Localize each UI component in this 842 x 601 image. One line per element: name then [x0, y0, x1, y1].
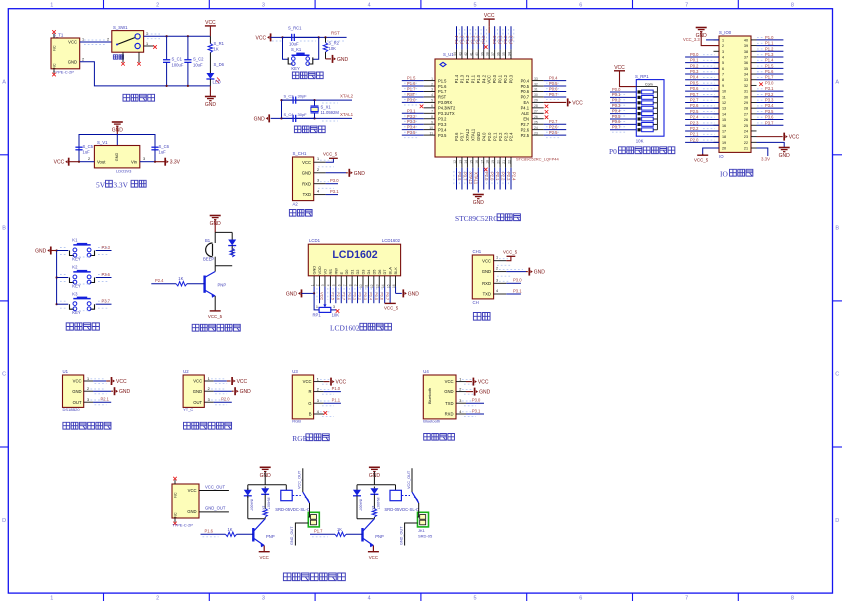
svg-text:YT_C: YT_C [183, 407, 193, 412]
svg-text:GND: GND [187, 509, 196, 514]
svg-text:10K: 10K [636, 139, 644, 144]
svg-text:VCC: VCC [73, 379, 82, 384]
svg-text:11: 11 [722, 95, 726, 99]
svg-text:7: 7 [722, 73, 724, 77]
module U4 Bluetooth [423, 375, 456, 419]
svg-text:GND: GND [779, 153, 791, 159]
svg-text:P4.2: P4.2 [481, 74, 486, 83]
svg-text:1: 1 [722, 38, 724, 42]
svg-text:B: B [835, 226, 839, 232]
svg-text:S_C6: S_C6 [159, 144, 170, 149]
svg-text:P1.1: P1.1 [470, 74, 475, 83]
svg-text:P1.1: P1.1 [332, 398, 341, 403]
caption module U1 [63, 422, 70, 429]
relay coil SRD-05VDC-SL-C [395, 485, 397, 491]
svg-text:P3.4: P3.4 [765, 103, 774, 108]
svg-text:VCC: VCC [256, 35, 267, 41]
svg-text:P3.4: P3.4 [438, 127, 447, 132]
svg-text:P0.7: P0.7 [521, 95, 530, 100]
svg-text:U4: U4 [423, 369, 429, 374]
serial pin2 to GND [499, 269, 523, 271]
svg-text:P0.5: P0.5 [549, 81, 558, 86]
svg-text:NC: NC [53, 63, 57, 69]
LCD data wires [313, 287, 315, 294]
svg-text:P2.7: P2.7 [549, 119, 558, 124]
wire crystal XTAL2 rail [282, 99, 353, 101]
svg-text:P0.5: P0.5 [521, 84, 530, 89]
svg-text:OUT: OUT [73, 400, 82, 405]
svg-text:Vin: Vin [131, 160, 138, 165]
svg-text:1K: 1K [228, 527, 233, 532]
svg-text:7: 7 [685, 596, 688, 601]
svg-text:3: 3 [333, 305, 335, 309]
svg-text:VCC_3.3: VCC_3.3 [683, 37, 700, 42]
svg-text:GND_OUT: GND_OUT [290, 526, 294, 545]
svg-text:P1.1: P1.1 [470, 35, 475, 44]
caption download port [289, 210, 296, 217]
push button K1 KEY [57, 250, 69, 252]
svg-text:VCC_OUT: VCC_OUT [298, 470, 302, 489]
svg-text:STC89C52RC_LQFP44: STC89C52RC_LQFP44 [516, 157, 559, 162]
module U1 DS18B20 [63, 375, 84, 407]
svg-text:VCC: VCC [188, 488, 197, 493]
svg-text:P3.0: P3.0 [407, 97, 416, 102]
svg-text:OUT: OUT [193, 400, 202, 405]
svg-text:P1.7: P1.7 [314, 528, 323, 533]
svg-text:P0.6: P0.6 [549, 87, 558, 92]
svg-text:GND: GND [119, 389, 131, 395]
svg-text:1K: 1K [232, 247, 236, 252]
svg-text:IO: IO [719, 154, 724, 159]
pull-up resistor element P0.1 [610, 96, 636, 98]
svg-text:RP1: RP1 [313, 313, 322, 318]
svg-text:P0.6: P0.6 [690, 86, 699, 91]
svg-text:XTAL2: XTAL2 [340, 94, 354, 99]
module U3 RGB [292, 375, 313, 419]
svg-text:1uF: 1uF [159, 150, 167, 155]
svg-text:IN4007: IN4007 [267, 498, 271, 510]
ground crystal circuit [268, 114, 270, 122]
svg-text:NC: NC [174, 492, 178, 498]
svg-text:Bluetooth: Bluetooth [423, 419, 440, 424]
svg-text:RGB: RGB [292, 419, 301, 424]
capacitor S_C2 10uF [187, 36, 189, 60]
svg-text:NC: NC [53, 45, 57, 51]
svg-text:P1.2: P1.2 [465, 35, 470, 44]
caption crystal circuit [294, 126, 301, 133]
svg-text:2: 2 [88, 157, 90, 161]
svg-text:P1.2: P1.2 [465, 74, 470, 83]
svg-text:25: 25 [744, 124, 748, 128]
svg-text:TYPE-C-2P: TYPE-C-2P [172, 523, 193, 528]
svg-text:S_R1: S_R1 [214, 41, 225, 46]
svg-text:P0: P0 [609, 147, 617, 156]
ground reset circuit [326, 58, 332, 60]
svg-text:P3.7: P3.7 [765, 120, 774, 125]
svg-text:P1.6: P1.6 [765, 69, 774, 74]
svg-text:3: 3 [317, 179, 319, 183]
svg-text:S_T1: S_T1 [53, 33, 64, 38]
svg-text:NC: NC [174, 512, 178, 518]
svg-text:P2.4: P2.4 [690, 115, 699, 120]
svg-text:P1.5: P1.5 [407, 76, 416, 81]
pull-up resistor element P0.0 [610, 91, 636, 93]
svg-text:31: 31 [744, 90, 748, 94]
wire crystal XTAL1 rail [271, 117, 352, 119]
svg-text:5V: 5V [96, 181, 106, 190]
svg-text:D0: D0 [344, 269, 349, 275]
svg-text:GND: GND [35, 249, 47, 255]
svg-text:VCC: VCC [484, 13, 495, 19]
svg-text:VCC: VCC [193, 379, 202, 384]
svg-text:P2.0: P2.0 [690, 137, 699, 142]
caption button circuit [66, 323, 73, 330]
svg-text:P4.0: P4.0 [481, 132, 486, 141]
relay snubber loop wires [357, 484, 396, 486]
svg-text:S_C2: S_C2 [193, 57, 204, 62]
svg-text:1: 1 [317, 157, 319, 161]
svg-text:P1.4: P1.4 [765, 58, 774, 63]
svg-text:4: 4 [317, 410, 319, 414]
svg-text:P2.0: P2.0 [487, 132, 492, 141]
svg-text:C: C [835, 372, 839, 378]
svg-text:XTAL2: XTAL2 [465, 128, 470, 141]
power port 3.3V out of LDO [164, 158, 166, 166]
svg-text:1K: 1K [262, 506, 266, 511]
buzzer B1 BEEP [206, 243, 213, 257]
power port VCC IO pin23 [757, 136, 783, 138]
ground button circuit [50, 247, 52, 255]
svg-text:D7: D7 [382, 270, 387, 275]
svg-text:30pF: 30pF [298, 94, 308, 99]
svg-text:GND: GND [286, 291, 298, 297]
relay coil SRD-05VDC-SL-C [285, 485, 287, 491]
svg-text:P1.5: P1.5 [438, 78, 447, 83]
svg-text:P3.2: P3.2 [765, 92, 774, 97]
button trunk wire [56, 251, 58, 305]
svg-text:JK1: JK1 [418, 528, 426, 533]
svg-text:P0.3: P0.3 [509, 74, 514, 83]
svg-text:P0.7: P0.7 [385, 292, 390, 300]
svg-text:P1.7: P1.7 [765, 75, 774, 80]
diode D2 IN4007 [370, 488, 378, 494]
module U4 pin4 net P3.1 [466, 413, 484, 415]
ground relay [260, 466, 271, 468]
svg-text:2: 2 [317, 388, 319, 392]
svg-text:1uF: 1uF [83, 150, 91, 155]
svg-text:D4: D4 [366, 269, 371, 275]
connector CH1 serial port [472, 255, 493, 299]
net 3.3V IO pin21 [757, 148, 768, 156]
svg-text:19: 19 [722, 141, 726, 145]
power port VCC power circuit [205, 25, 216, 27]
svg-text:P1.0: P1.0 [332, 386, 341, 391]
svg-text:BLA: BLA [388, 267, 393, 275]
svg-text:P0.4: P0.4 [521, 78, 530, 83]
svg-text:S_C4: S_C4 [284, 112, 295, 117]
svg-text:1: 1 [50, 596, 53, 601]
svg-text:P1.6: P1.6 [438, 84, 447, 89]
svg-text:13: 13 [722, 107, 726, 111]
svg-text:R: R [308, 389, 311, 394]
module U4 pin2 GND [466, 391, 473, 393]
svg-text:10K: 10K [332, 313, 340, 318]
svg-text:P0.0: P0.0 [492, 74, 497, 83]
svg-text:P2.5: P2.5 [521, 133, 530, 138]
push button K3 KEY [57, 303, 69, 305]
svg-text:1: 1 [316, 305, 318, 309]
svg-text:ALE: ALE [521, 111, 529, 116]
svg-text:A: A [835, 80, 839, 86]
svg-text:GND_OUT: GND_OUT [399, 526, 403, 545]
wire crystal left leg [281, 100, 283, 118]
svg-text:P3.6: P3.6 [454, 132, 459, 141]
svg-text:G: G [308, 401, 311, 406]
serial pin1 to VCC_5 [499, 258, 508, 260]
capacitor S_C6 1uF [154, 140, 156, 147]
svg-text:P3.3: P3.3 [438, 122, 447, 127]
svg-text:100uF: 100uF [172, 63, 184, 68]
svg-text:P3.7: P3.7 [102, 299, 111, 304]
svg-text:P1.0: P1.0 [476, 35, 481, 44]
caption Bluetooth module [424, 434, 431, 441]
svg-text:P0.0: P0.0 [612, 87, 621, 92]
svg-text:VCC: VCC [369, 555, 378, 560]
svg-text:28: 28 [744, 107, 748, 111]
svg-text:39: 39 [744, 44, 748, 48]
svg-text:P2.3: P2.3 [503, 132, 508, 141]
power port VCC into LDO [68, 158, 70, 166]
svg-text:P4.3INT2: P4.3INT2 [438, 106, 456, 111]
svg-text:VCC: VCC [303, 379, 312, 384]
IO right pins P1.0-P1.7 [757, 39, 784, 41]
svg-text:VCC_OUT: VCC_OUT [205, 484, 225, 489]
svg-text:40: 40 [744, 38, 748, 42]
svg-text:8: 8 [722, 78, 724, 82]
svg-text:P0.0: P0.0 [690, 52, 699, 57]
capacitor S_C5 1uF [78, 140, 80, 147]
svg-text:VCC: VCC [482, 258, 491, 263]
svg-text:2: 2 [496, 267, 498, 271]
svg-text:P3.3: P3.3 [407, 119, 416, 124]
svg-text:U1: U1 [63, 369, 69, 374]
module U2 pin3 net P2.0 [214, 401, 232, 403]
svg-text:P3.5: P3.5 [438, 133, 447, 138]
svg-text:S_D6: S_D6 [214, 62, 225, 67]
wire LDO top rail [79, 135, 155, 162]
ground 5V-3.3V circuit [112, 121, 123, 123]
ground relay [369, 466, 380, 468]
ground power circuit [209, 86, 211, 97]
svg-text:P1.3: P1.3 [459, 74, 464, 83]
wire net GND_OUT [199, 511, 229, 513]
svg-text:P2.6: P2.6 [521, 127, 530, 132]
svg-text:14: 14 [722, 112, 726, 116]
svg-text:VCC: VCC [336, 380, 347, 386]
svg-text:P0.4: P0.4 [549, 76, 558, 81]
module U2 YT_C [183, 375, 204, 407]
pull-up resistor element P0.2 [610, 102, 636, 104]
svg-text:TXD: TXD [483, 292, 491, 297]
svg-text:VCC: VCC [572, 100, 583, 106]
caption module U2 [184, 422, 191, 429]
svg-text:KEY: KEY [291, 66, 300, 71]
wire reset top rail to RST [271, 36, 347, 38]
svg-text:6: 6 [722, 67, 724, 71]
svg-text:GND: GND [240, 389, 252, 395]
svg-text:IN4007: IN4007 [376, 498, 380, 510]
svg-text:32: 32 [744, 84, 748, 88]
resistor relay base 1K [310, 533, 335, 535]
svg-text:P3.4: P3.4 [407, 125, 416, 130]
svg-text:K3: K3 [72, 291, 78, 296]
svg-text:1: 1 [82, 38, 84, 42]
svg-text:VCC: VCC [302, 160, 311, 165]
svg-text:2: 2 [156, 2, 159, 8]
svg-text:GND: GND [473, 200, 485, 206]
download port pin1 to VCC_5 [320, 159, 332, 161]
pull-up resistor element P0.6 [610, 123, 636, 125]
svg-text:P2.7: P2.7 [521, 122, 530, 127]
svg-text:5: 5 [473, 596, 476, 601]
svg-text:GND: GND [408, 291, 420, 297]
ground LCD left [301, 289, 303, 297]
capacitor S_C4 30pF [282, 117, 294, 119]
svg-text:Vout: Vout [97, 160, 106, 165]
svg-text:P0.7: P0.7 [612, 125, 621, 130]
svg-text:2: 2 [87, 387, 89, 391]
svg-text:E: E [339, 272, 344, 275]
net VCC_5 IO pin20 [703, 148, 719, 155]
svg-text:P3.1UTX: P3.1UTX [438, 111, 455, 116]
svg-text:TXD: TXD [303, 192, 311, 197]
serial pin3 net P3.0 [499, 280, 510, 282]
svg-text:S_SW1: S_SW1 [113, 25, 128, 30]
svg-text:P0.3: P0.3 [612, 103, 621, 108]
svg-text:S_K1: S_K1 [291, 47, 302, 52]
svg-text:1: 1 [208, 377, 210, 381]
svg-text:22: 22 [744, 141, 748, 145]
MCU S_U1 STC89C52RC_LQFP44 [435, 59, 532, 157]
svg-text:P0.0: P0.0 [492, 35, 497, 44]
svg-text:P0.7: P0.7 [690, 92, 699, 97]
svg-text:DS18B20: DS18B20 [63, 407, 81, 412]
capacitor S_RC1 10uF [283, 36, 292, 38]
svg-text:9: 9 [722, 84, 724, 88]
switch S_SW1 [112, 31, 144, 53]
svg-text:GND: GND [68, 60, 77, 65]
svg-text:3: 3 [262, 2, 265, 8]
svg-text:4: 4 [368, 596, 371, 601]
wire relay emitter to VCC [372, 546, 374, 552]
svg-text:GND: GND [312, 266, 317, 275]
svg-text:3: 3 [496, 278, 498, 282]
resistor alarm base 1K [151, 283, 176, 285]
svg-text:10: 10 [722, 90, 726, 94]
svg-text:D3: D3 [360, 270, 365, 275]
svg-text:SRD-05VDC-SL-C: SRD-05VDC-SL-C [275, 507, 310, 512]
svg-text:4: 4 [368, 2, 371, 8]
svg-text:P2.4: P2.4 [511, 172, 516, 181]
svg-text:P0.7: P0.7 [549, 92, 558, 97]
svg-text:P2.6: P2.6 [690, 103, 699, 108]
LED S_D6 [206, 73, 214, 79]
svg-text:LCD1602: LCD1602 [382, 238, 401, 243]
svg-text:38: 38 [744, 50, 748, 54]
svg-text:VCC: VCC [237, 379, 248, 385]
LED alarm branch [228, 240, 236, 246]
svg-text:P3.1: P3.1 [472, 408, 481, 413]
svg-text:RGB: RGB [292, 434, 307, 443]
svg-text:Com: Com [645, 83, 653, 87]
svg-text:3: 3 [722, 50, 724, 54]
svg-text:18: 18 [722, 135, 726, 139]
push button K2 KEY [57, 277, 69, 279]
svg-text:IO: IO [720, 170, 728, 179]
transistor PNP relay driver [252, 528, 254, 542]
svg-text:12: 12 [722, 101, 726, 105]
svg-text:P2.7: P2.7 [690, 97, 699, 102]
svg-text:3: 3 [317, 399, 319, 403]
svg-text:4: 4 [459, 410, 461, 414]
svg-text:P0.3: P0.3 [690, 69, 699, 74]
svg-text:P0.5: P0.5 [612, 114, 621, 119]
svg-text:P0.2: P0.2 [503, 35, 508, 44]
IO right pin 32 no-connect P3.0 [759, 82, 763, 86]
svg-text:S_RC1: S_RC1 [288, 26, 302, 31]
svg-text:A: A [2, 80, 6, 86]
svg-text:P3.2: P3.2 [407, 114, 416, 119]
svg-text:7: 7 [685, 2, 688, 8]
svg-text:S_IO0: S_IO0 [719, 30, 732, 35]
terminal block connector [308, 512, 319, 527]
module U1 pin2 GND [93, 390, 111, 392]
svg-text:2: 2 [459, 388, 461, 392]
power port VCC MCU top [484, 18, 495, 20]
svg-text:EN: EN [523, 116, 529, 121]
button S_K1 KEY [283, 37, 289, 59]
module U3 pin2 net P1.0 [324, 391, 341, 393]
svg-text:VCC: VCC [445, 379, 454, 384]
module U3 pin4 no-connect [324, 411, 328, 415]
capacitor S_C1 100uF [166, 36, 168, 60]
resistor S_R1 1K [209, 36, 211, 43]
svg-text:K2: K2 [72, 265, 78, 270]
svg-text:P0.4: P0.4 [690, 75, 699, 80]
capacitor S_C3 30pF [282, 99, 294, 101]
svg-text:10uF: 10uF [193, 63, 203, 68]
svg-text:GND: GND [482, 269, 491, 274]
svg-text:D: D [835, 518, 839, 524]
svg-text:B: B [2, 226, 6, 232]
svg-text:16: 16 [722, 124, 726, 128]
svg-text:P3.3: P3.3 [765, 97, 774, 102]
svg-text:VCC: VCC [478, 380, 489, 386]
svg-text:P0.1: P0.1 [498, 74, 503, 83]
relay contact arm and VCC_OUT wire [302, 468, 304, 492]
svg-text:P1.6: P1.6 [205, 528, 214, 533]
svg-text:P3.0: P3.0 [513, 278, 522, 283]
svg-text:D6: D6 [377, 270, 382, 275]
svg-text:XTAL1: XTAL1 [473, 172, 478, 185]
svg-text:GND: GND [254, 116, 266, 122]
svg-text:P0.1: P0.1 [690, 58, 699, 63]
svg-text:PNP: PNP [218, 283, 227, 288]
svg-text:P1.5: P1.5 [765, 63, 774, 68]
svg-text:5: 5 [722, 61, 724, 65]
svg-text:VDD: VDD [317, 266, 322, 274]
svg-text:VCC: VCC [320, 292, 325, 300]
